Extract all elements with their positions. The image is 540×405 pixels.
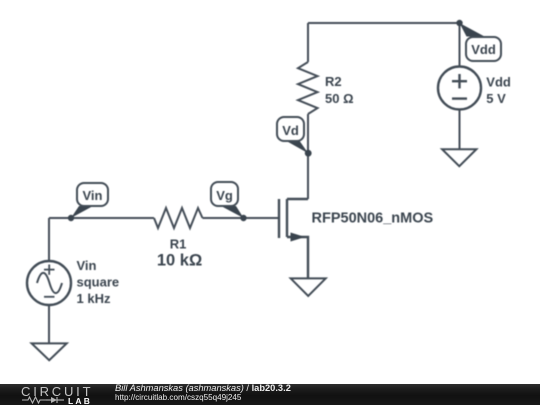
wire R1 to gate xyxy=(203,217,279,219)
svg-text:Vd: Vd xyxy=(282,123,299,138)
node dot Vdd xyxy=(456,20,462,26)
node dot Vd xyxy=(305,150,312,157)
svg-text:R2: R2 xyxy=(325,74,342,89)
flag Vd xyxy=(277,117,308,153)
svg-text:1 kHz: 1 kHz xyxy=(77,291,111,306)
svg-text:Vdd: Vdd xyxy=(471,42,496,57)
svg-text:Vdd: Vdd xyxy=(486,74,511,89)
svg-text:50 Ω: 50 Ω xyxy=(325,91,354,106)
wire right vertical Vdd node to V2 source top xyxy=(459,23,461,67)
footer bar xyxy=(0,384,540,405)
label V1 value xyxy=(77,258,120,306)
flag Vin xyxy=(71,183,108,218)
resistor R2 xyxy=(298,62,318,114)
footer line 2 xyxy=(115,393,241,402)
CircuitLab logo text xyxy=(21,384,93,399)
node dot Vin xyxy=(68,215,74,221)
label R2 value xyxy=(325,74,354,106)
ground under V1 xyxy=(32,343,67,360)
svg-text:10 kΩ: 10 kΩ xyxy=(157,251,202,269)
ground under V2 xyxy=(442,149,476,166)
label R1 value xyxy=(157,237,202,270)
wire Vin source bottom to ground xyxy=(48,305,50,343)
wire R2 top lead xyxy=(307,23,309,62)
resistor R1 xyxy=(154,208,203,228)
svg-text:Vin: Vin xyxy=(77,258,97,273)
wire Vin source top xyxy=(48,218,50,261)
svg-text:RFP50N06_nMOS: RFP50N06_nMOS xyxy=(312,210,434,226)
transistor M1 RFP50N06_nMOS xyxy=(279,199,308,278)
svg-text:square: square xyxy=(77,274,120,289)
flag Vg xyxy=(211,182,244,218)
voltage source V1 Vin sine xyxy=(27,261,71,305)
voltage source V2 Vdd 5V xyxy=(438,67,481,110)
svg-text:5 V: 5 V xyxy=(486,91,506,106)
label V2 value xyxy=(486,74,511,106)
wire Vin node horizontal to R1 xyxy=(49,217,154,219)
node dot Vg xyxy=(240,215,246,221)
wire top from R2 to Vdd node xyxy=(308,22,460,24)
wire R2 bottom lead to drain xyxy=(307,114,309,199)
ground under M1 source xyxy=(291,278,326,296)
wire V2 bottom to ground xyxy=(459,110,461,150)
svg-text:Vin: Vin xyxy=(83,188,103,203)
CircuitLab logo glyph xyxy=(22,395,72,405)
svg-text:R1: R1 xyxy=(170,237,187,252)
flag Vdd xyxy=(460,23,502,61)
svg-text:Vg: Vg xyxy=(216,188,233,203)
footer line 1 xyxy=(115,383,291,393)
